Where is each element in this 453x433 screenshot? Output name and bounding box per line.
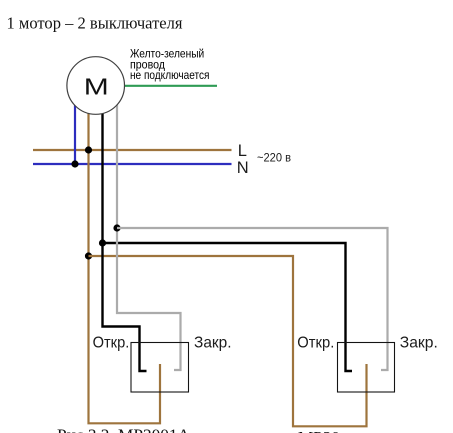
svg-text:М: М xyxy=(84,74,109,100)
green wire annotation xyxy=(130,47,210,82)
switch SA1 box xyxy=(131,343,189,393)
wire blue motor-to-N xyxy=(74,104,76,164)
svg-text:Откр.: Откр. xyxy=(93,335,130,352)
junction gray branch xyxy=(113,224,120,231)
wire black branch to right switch open contact xyxy=(103,243,353,371)
switch SA2 box xyxy=(338,343,395,393)
wire gray branch to right switch close contact xyxy=(117,228,388,370)
svg-text:не подключается: не подключается xyxy=(130,68,210,82)
svg-text:N: N xyxy=(237,159,249,177)
wire green protective earth (not connected) xyxy=(125,85,218,87)
motor M1 xyxy=(67,57,125,115)
svg-text:МР20: МР20 xyxy=(298,428,340,433)
junction brown branch xyxy=(85,252,92,259)
junction brown-L xyxy=(85,146,92,153)
svg-text:~220 в: ~220 в xyxy=(257,151,291,165)
junction blue-N xyxy=(71,160,78,167)
wire gray motor to left switch close contact xyxy=(117,104,181,370)
svg-text:Откр.: Откр. xyxy=(297,335,334,352)
svg-text:Закр.: Закр. xyxy=(194,335,232,352)
wire N blue horizontal xyxy=(33,163,232,165)
wire brown motor common to left switch xyxy=(89,112,161,423)
svg-text:Рис 3.2. МР2001А: Рис 3.2. МР2001А xyxy=(57,426,191,433)
wire L brown horizontal xyxy=(33,149,232,151)
svg-text:L: L xyxy=(238,142,247,160)
junction black branch xyxy=(99,239,106,246)
svg-text:1 мотор – 2 выключателя: 1 мотор – 2 выключателя xyxy=(7,14,183,33)
wire brown branch to right switch xyxy=(89,256,367,426)
wire black motor to left switch open contact xyxy=(103,113,147,371)
svg-text:Закр.: Закр. xyxy=(400,335,438,352)
